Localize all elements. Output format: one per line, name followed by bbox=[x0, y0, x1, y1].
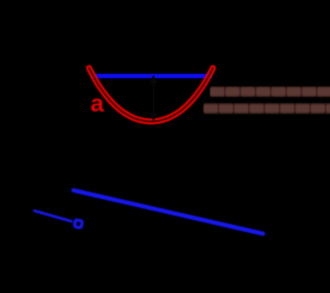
dark core curve (black curve overlapping the red one) bbox=[89, 68, 213, 122]
top support beam (blue horizontal bar) bbox=[91, 74, 212, 79]
upper maroon dashed line (right side) bbox=[211, 87, 330, 96]
long blue inclined line (bottom) bbox=[74, 190, 264, 233]
svg-text:a: a bbox=[91, 91, 105, 118]
sag dimension line (near-invisible dark vertical line with arrows) bbox=[150, 75, 158, 122]
short blue line (bottom left) bbox=[35, 211, 72, 222]
lower maroon dashed line (right side) bbox=[204, 104, 330, 113]
hanging red catenary curve (outer red stroke) bbox=[89, 68, 213, 122]
open square marker at end of short line bbox=[74, 220, 82, 228]
